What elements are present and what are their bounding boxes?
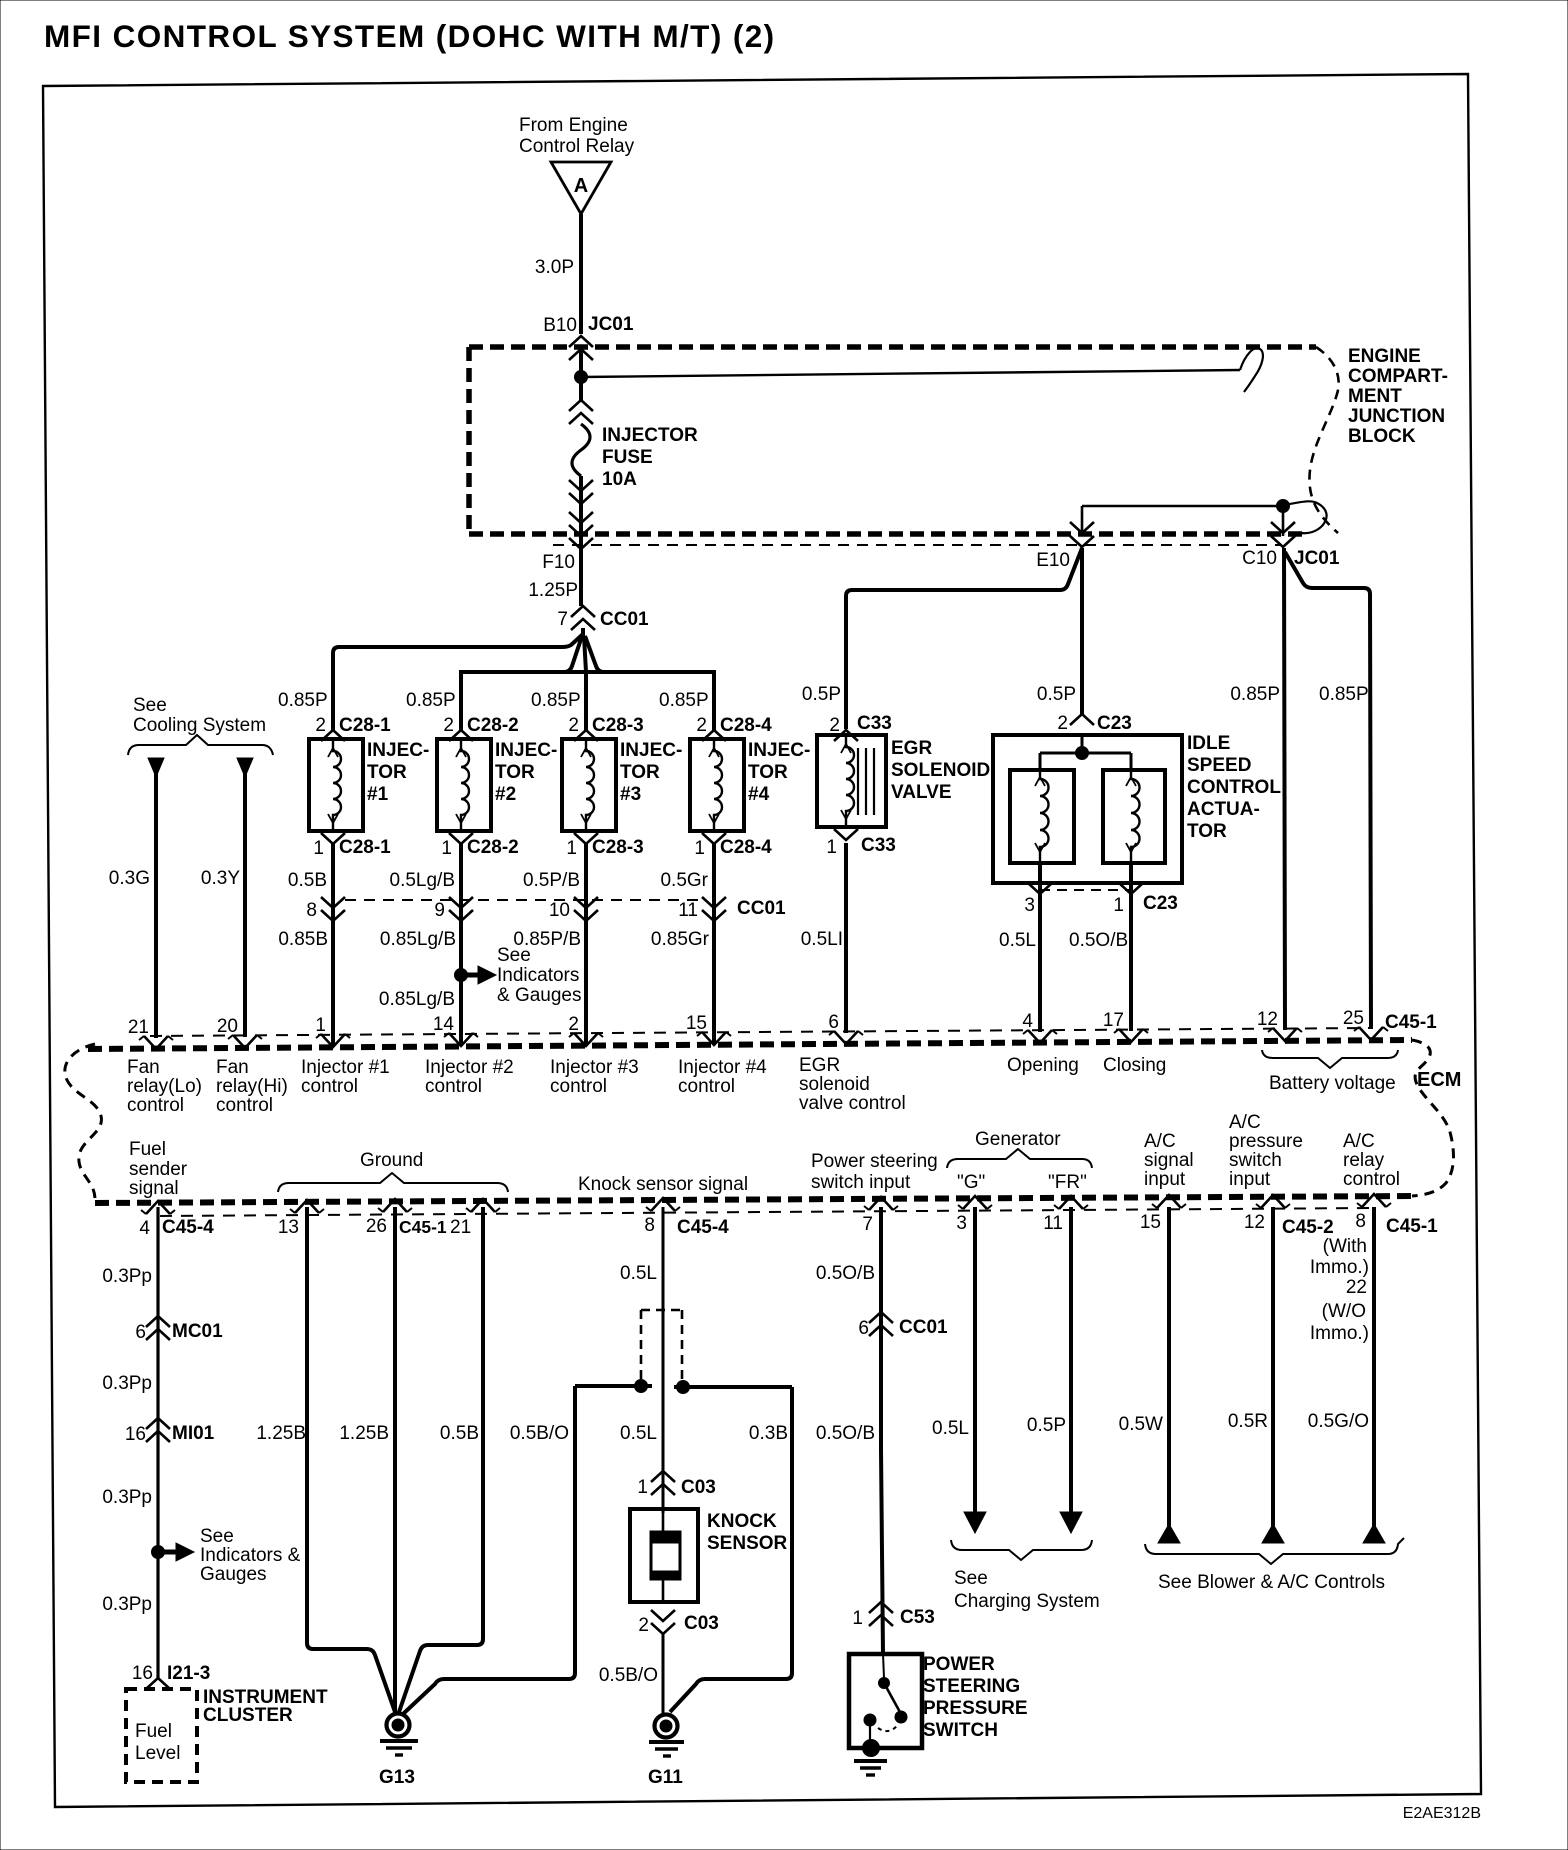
svg-text:0.85P: 0.85P bbox=[1319, 684, 1369, 705]
svg-text:0.5B/O: 0.5B/O bbox=[599, 1665, 658, 1686]
injector #1 coil box bbox=[309, 739, 363, 831]
svg-text:0.5L: 0.5L bbox=[932, 1418, 969, 1439]
wire E10 to ISCA bbox=[1080, 548, 1084, 714]
connector CC01 pin 8 bbox=[306, 897, 345, 922]
svg-text:0.5LI: 0.5LI bbox=[801, 929, 843, 950]
ECM top pin 2 bbox=[568, 1014, 603, 1046]
wire injector 1 to ECM bbox=[331, 922, 335, 1047]
ECM label AC pressure switch input bbox=[1229, 1112, 1303, 1190]
svg-text:2: 2 bbox=[696, 715, 707, 736]
injector #2 coil box bbox=[437, 739, 491, 831]
svg-text:CC01: CC01 bbox=[737, 898, 786, 919]
wire label 0.5W bbox=[1119, 1414, 1163, 1435]
svg-text:0.85P: 0.85P bbox=[278, 690, 328, 711]
svg-text:PRESSURE: PRESSURE bbox=[923, 1698, 1028, 1719]
svg-text:Control Relay: Control Relay bbox=[519, 136, 635, 157]
svg-text:relay(Hi): relay(Hi) bbox=[216, 1076, 288, 1097]
ECM label AC signal input bbox=[1144, 1131, 1194, 1190]
wire label 0.85P injector 1 bbox=[278, 690, 328, 711]
label INJECTOR #2 bbox=[495, 740, 557, 805]
svg-text:0.85Lg/B: 0.85Lg/B bbox=[379, 989, 455, 1010]
svg-text:1: 1 bbox=[826, 837, 837, 858]
svg-text:4: 4 bbox=[1022, 1011, 1033, 1032]
svg-text:1.25B: 1.25B bbox=[256, 1423, 306, 1444]
svg-text:A/C: A/C bbox=[1343, 1131, 1375, 1152]
ECM label Power steering switch input bbox=[811, 1151, 938, 1193]
ECM top pin 6 bbox=[828, 1012, 863, 1044]
svg-text:C28-4: C28-4 bbox=[720, 715, 772, 736]
svg-text:TOR: TOR bbox=[620, 762, 660, 783]
svg-text:0.85B: 0.85B bbox=[278, 929, 328, 950]
svg-text:1: 1 bbox=[313, 838, 324, 859]
label INJECTOR #3 bbox=[620, 740, 682, 805]
fuel sender tap to indicators bbox=[152, 1526, 301, 1585]
connector C53 pin 1 bbox=[852, 1602, 934, 1629]
svg-text:CC01: CC01 bbox=[600, 609, 649, 630]
svg-text:MI01: MI01 bbox=[172, 1423, 215, 1444]
svg-text:INJEC-: INJEC- bbox=[620, 740, 682, 761]
svg-text:0.3Y: 0.3Y bbox=[201, 868, 240, 889]
svg-text:C23: C23 bbox=[1143, 893, 1178, 914]
svg-text:Injector #1: Injector #1 bbox=[301, 1057, 390, 1078]
svg-text:control: control bbox=[425, 1076, 482, 1097]
svg-text:(With: (With bbox=[1323, 1236, 1367, 1257]
svg-text:1: 1 bbox=[852, 1608, 863, 1629]
svg-text:0.3G: 0.3G bbox=[109, 868, 150, 889]
ISCA right coil box bbox=[1103, 770, 1165, 863]
svg-text:INJECTOR: INJECTOR bbox=[602, 425, 698, 446]
svg-text:B10: B10 bbox=[543, 315, 577, 336]
label INJECTOR #1 bbox=[367, 740, 429, 805]
svg-text:1.25B: 1.25B bbox=[339, 1423, 389, 1444]
fan relay lo wire bbox=[148, 758, 164, 1038]
svg-text:8: 8 bbox=[1355, 1211, 1366, 1232]
label Ground bbox=[360, 1150, 423, 1171]
ECM bottom pin 8 bbox=[644, 1198, 680, 1236]
svg-text:2: 2 bbox=[1057, 713, 1068, 734]
svg-text:CONTROL: CONTROL bbox=[1187, 777, 1281, 798]
svg-text:2: 2 bbox=[568, 715, 579, 736]
ECM label Injector 3 control bbox=[550, 1057, 639, 1097]
svg-text:0.5G/O: 0.5G/O bbox=[1308, 1411, 1369, 1432]
label Battery voltage bbox=[1269, 1073, 1396, 1094]
wire label 0.85P battery2 bbox=[1319, 684, 1369, 705]
wire label 0.3Pp 1 bbox=[102, 1266, 152, 1287]
ISCA exit wires bbox=[1040, 863, 1131, 897]
injector #4 coil box bbox=[690, 739, 744, 831]
ECM bottom pin 13 bbox=[278, 1200, 324, 1238]
svg-text:SPEED: SPEED bbox=[1187, 755, 1251, 776]
ECM bottom pin 21 bbox=[466, 1199, 500, 1212]
svg-text:1: 1 bbox=[566, 838, 577, 859]
cooling system brace bbox=[128, 735, 273, 755]
svg-text:IDLE: IDLE bbox=[1187, 733, 1230, 754]
svg-text:2: 2 bbox=[829, 715, 840, 736]
svg-text:C28-1: C28-1 bbox=[339, 715, 391, 736]
wire label 0.85P injector 2 bbox=[406, 690, 456, 711]
svg-text:Immo.): Immo.) bbox=[1310, 1323, 1369, 1344]
diagram code E2AE312B bbox=[1403, 1805, 1481, 1822]
svg-text:Injector #4: Injector #4 bbox=[678, 1057, 767, 1078]
svg-text:2: 2 bbox=[443, 715, 454, 736]
ECM label Knock sensor signal bbox=[578, 1174, 748, 1195]
svg-text:0.5L: 0.5L bbox=[620, 1423, 657, 1444]
wire injector 2 to ECM bbox=[459, 922, 463, 1046]
ECM label Injector 4 control bbox=[678, 1057, 767, 1097]
connector MI01 pin 16 bbox=[125, 1418, 215, 1445]
connector C23 pin 2 bbox=[1057, 713, 1131, 734]
svg-text:0.85P: 0.85P bbox=[659, 690, 709, 711]
ECM top pin 15 bbox=[686, 1013, 731, 1045]
svg-text:21: 21 bbox=[128, 1017, 149, 1038]
wire ISCA opening to ECM bbox=[1038, 897, 1042, 1032]
svg-text:C28-1: C28-1 bbox=[339, 837, 391, 858]
label See Cooling System bbox=[133, 695, 266, 736]
svg-text:control: control bbox=[127, 1095, 184, 1116]
svg-text:C28-2: C28-2 bbox=[467, 715, 519, 736]
svg-text:solenoid: solenoid bbox=[799, 1074, 870, 1095]
label INJECTOR FUSE 10A bbox=[602, 425, 698, 490]
svg-text:INJEC-: INJEC- bbox=[495, 740, 557, 761]
ECM bottom dashed edge bbox=[95, 1196, 1412, 1203]
svg-text:Immo.): Immo.) bbox=[1310, 1257, 1369, 1278]
power steering pressure switch box bbox=[849, 1654, 922, 1757]
shield drain wire 0.3B to G11 bbox=[670, 1387, 792, 1712]
svg-text:0.85P: 0.85P bbox=[406, 690, 456, 711]
svg-text:TOR: TOR bbox=[1187, 821, 1227, 842]
svg-text:0.5P: 0.5P bbox=[1037, 684, 1076, 705]
wire label 1.25B b bbox=[339, 1423, 389, 1444]
svg-text:12: 12 bbox=[1257, 1009, 1278, 1030]
svg-text:control: control bbox=[550, 1076, 607, 1097]
connector E10 bbox=[1036, 506, 1094, 571]
wire label 0.5L ISCA bbox=[999, 930, 1036, 951]
junction block left dashed edge bbox=[466, 347, 472, 534]
ECM top pin 14 bbox=[433, 1014, 478, 1046]
svg-text:input: input bbox=[1144, 1169, 1186, 1190]
svg-text:JUNCTION: JUNCTION bbox=[1348, 406, 1445, 427]
ECM top pin 1 bbox=[315, 1015, 350, 1047]
svg-text:sender: sender bbox=[129, 1159, 188, 1180]
wire label 0.5Gr bbox=[660, 870, 708, 891]
charging system brace bbox=[951, 1540, 1092, 1560]
wire label 0.5P gen bbox=[1027, 1415, 1066, 1436]
wire label 0.5B bbox=[288, 870, 327, 891]
svg-text:C28-4: C28-4 bbox=[720, 837, 772, 858]
svg-text:Fuel: Fuel bbox=[135, 1721, 172, 1742]
svg-text:A/C: A/C bbox=[1144, 1131, 1176, 1152]
svg-text:1.25P: 1.25P bbox=[528, 580, 578, 601]
wire label 1.25P bbox=[528, 580, 578, 601]
svg-text:JC01: JC01 bbox=[588, 314, 634, 335]
wire F10 to CC01 bbox=[579, 556, 583, 606]
svg-text:#3: #3 bbox=[620, 784, 641, 805]
connector C33 pin 2 bbox=[829, 713, 891, 741]
wire label 0.85B bbox=[278, 929, 328, 950]
wire label 0.85P battery1 bbox=[1230, 684, 1280, 705]
svg-text:0.3Pp: 0.3Pp bbox=[102, 1487, 152, 1508]
wire label 0.5LI bbox=[801, 929, 843, 950]
connector B10 JC01 bbox=[543, 314, 634, 360]
ECM top pin 21 bbox=[128, 1017, 173, 1049]
knock ground wire bbox=[662, 1634, 665, 1713]
label ECM bbox=[1417, 1069, 1461, 1091]
connector C28-2 pin 2 top bbox=[443, 715, 518, 741]
connector C28-2 pin 1 bottom bbox=[441, 833, 518, 859]
svg-text:Fan: Fan bbox=[216, 1057, 249, 1078]
knock wire upper bbox=[662, 1207, 665, 1513]
instrument cluster fuel level box bbox=[126, 1689, 197, 1782]
fanout crossbar 2-4 bbox=[461, 670, 714, 674]
svg-text:Gauges: Gauges bbox=[200, 1564, 267, 1585]
blower brace bbox=[1145, 1538, 1404, 1564]
connector MC01 pin 6 bbox=[135, 1316, 223, 1343]
generator brace bbox=[947, 1149, 1092, 1168]
connector C28-4 pin 1 bottom bbox=[694, 833, 772, 859]
ECM label FR bbox=[1048, 1172, 1087, 1193]
fuel sender wire upper bbox=[156, 1207, 159, 1678]
wire injector 3 to CC01 bbox=[584, 844, 588, 897]
ECM label G bbox=[957, 1172, 985, 1193]
svg-text:2: 2 bbox=[638, 1615, 649, 1636]
generator FR wire bbox=[1060, 1207, 1082, 1533]
wire label 0.3Pp 2 bbox=[102, 1373, 152, 1394]
connector C10 JC01 bbox=[1242, 512, 1340, 569]
wire label 0.5O/B ISCA bbox=[1069, 930, 1128, 951]
switch ground hatching bbox=[854, 1761, 887, 1775]
wire C10 leg battery 2 bbox=[1285, 552, 1371, 1029]
ECM label Closing bbox=[1103, 1055, 1166, 1076]
svg-text:16: 16 bbox=[125, 1424, 146, 1445]
svg-text:Ground: Ground bbox=[360, 1150, 423, 1171]
svg-text:& Gauges: & Gauges bbox=[497, 985, 582, 1006]
connector C28-1 pin 2 top bbox=[315, 715, 391, 741]
svg-text:0.5R: 0.5R bbox=[1228, 1411, 1268, 1432]
svg-text:input: input bbox=[1229, 1169, 1271, 1190]
bus wire E10 C10 bbox=[1082, 505, 1283, 507]
svg-text:INJEC-: INJEC- bbox=[367, 740, 429, 761]
svg-text:0.5Lg/B: 0.5Lg/B bbox=[390, 870, 456, 891]
svg-text:CLUSTER: CLUSTER bbox=[203, 1705, 293, 1726]
svg-text:C33: C33 bbox=[857, 713, 892, 734]
svg-text:15: 15 bbox=[1140, 1212, 1161, 1233]
wire injector 2 to CC01 bbox=[459, 844, 463, 897]
wire injector 1 to CC01 bbox=[331, 844, 335, 897]
svg-text:1: 1 bbox=[1113, 895, 1124, 916]
svg-text:3: 3 bbox=[1024, 895, 1035, 916]
svg-text:Cooling System: Cooling System bbox=[133, 715, 266, 736]
wire label 0.85Lg/B bbox=[380, 929, 456, 950]
generator G wire bbox=[964, 1207, 986, 1533]
junction block bottom dashed edge bbox=[469, 531, 1302, 537]
power steering wire bbox=[881, 1207, 883, 1654]
bus wire to JC01 loop bbox=[581, 348, 1263, 392]
connector CC01 pin 6 bbox=[858, 1312, 948, 1339]
svg-text:C03: C03 bbox=[684, 1613, 719, 1634]
svg-text:14: 14 bbox=[433, 1014, 455, 1035]
ECM bottom pin 8 bbox=[1355, 1194, 1391, 1232]
svg-text:Generator: Generator bbox=[975, 1129, 1061, 1150]
svg-text:0.85Gr: 0.85Gr bbox=[651, 929, 710, 950]
svg-text:C45-1: C45-1 bbox=[1385, 1012, 1437, 1033]
svg-text:#1: #1 bbox=[367, 784, 389, 805]
wire ISCA closing to ECM bbox=[1129, 897, 1133, 1031]
svg-text:13: 13 bbox=[278, 1217, 299, 1238]
svg-text:STEERING: STEERING bbox=[923, 1676, 1020, 1697]
wire C10 leg battery 1 bbox=[1284, 548, 1285, 1030]
fanout wire to injector 1 bbox=[333, 634, 583, 730]
svg-text:Knock sensor signal: Knock sensor signal bbox=[578, 1174, 748, 1195]
svg-text:SWITCH: SWITCH bbox=[923, 1720, 998, 1741]
fanout wire to injector 2 bbox=[461, 636, 582, 730]
svg-text:0.5Gr: 0.5Gr bbox=[660, 870, 708, 891]
svg-text:10: 10 bbox=[549, 900, 570, 921]
connector C28-4 pin 2 top bbox=[696, 715, 772, 741]
svg-text:7: 7 bbox=[557, 609, 568, 630]
svg-text:2: 2 bbox=[315, 715, 326, 736]
svg-text:C45-2: C45-2 bbox=[1282, 1217, 1334, 1238]
svg-text:G11: G11 bbox=[648, 1767, 683, 1788]
ECM label Injector 1 control bbox=[301, 1057, 390, 1097]
ground wire 13 bbox=[307, 1207, 395, 1712]
svg-text:switch: switch bbox=[1229, 1150, 1282, 1171]
svg-text:8: 8 bbox=[306, 900, 317, 921]
connector C28-3 pin 1 bottom bbox=[566, 833, 643, 859]
svg-text:1: 1 bbox=[441, 838, 452, 859]
svg-text:7: 7 bbox=[862, 1214, 873, 1235]
svg-text:relay(Lo): relay(Lo) bbox=[127, 1076, 202, 1097]
svg-text:10A: 10A bbox=[602, 469, 637, 490]
svg-text:3: 3 bbox=[956, 1213, 967, 1234]
wire label 0.5P ISCA bbox=[1037, 684, 1076, 705]
svg-text:F10: F10 bbox=[542, 552, 575, 573]
svg-text:(W/O: (W/O bbox=[1322, 1301, 1366, 1322]
svg-text:signal: signal bbox=[1144, 1150, 1194, 1171]
power source triangle A bbox=[551, 162, 611, 214]
svg-text:20: 20 bbox=[217, 1016, 238, 1037]
svg-text:TOR: TOR bbox=[367, 762, 407, 783]
wire label 0.5L gen bbox=[932, 1418, 969, 1439]
svg-text:A: A bbox=[574, 175, 588, 197]
svg-text:ACTUA-: ACTUA- bbox=[1187, 799, 1260, 820]
wire E10 to EGR branch bbox=[846, 548, 1082, 729]
wire label 0.85Lg/B lower bbox=[379, 989, 455, 1010]
svg-text:Power steering: Power steering bbox=[811, 1151, 938, 1172]
svg-text:0.5B/O: 0.5B/O bbox=[510, 1423, 569, 1444]
wire label 0.3Y bbox=[201, 868, 240, 889]
svg-text:pressure: pressure bbox=[1229, 1131, 1303, 1152]
svg-text:12: 12 bbox=[1244, 1212, 1265, 1233]
svg-text:Fuel: Fuel bbox=[129, 1139, 166, 1160]
svg-text:See: See bbox=[497, 945, 531, 966]
ECM bottom connector row dashed line bbox=[160, 1208, 1374, 1216]
shield drain wire 0.5B/O to G13 bbox=[403, 1386, 575, 1714]
svg-text:17: 17 bbox=[1103, 1010, 1124, 1031]
junction node under B10 bbox=[575, 371, 588, 384]
label See Blower and AC Controls bbox=[1158, 1572, 1385, 1593]
wire label 0.5P EGR bbox=[802, 684, 841, 705]
svg-text:MC01: MC01 bbox=[172, 1321, 223, 1342]
ECM top pin 17 bbox=[1103, 1010, 1148, 1042]
ECM top pin 20 bbox=[217, 1016, 262, 1048]
svg-text:SENSOR: SENSOR bbox=[707, 1533, 788, 1554]
wire label 0.85Gr bbox=[651, 929, 710, 950]
connector C03 pin 1 bbox=[637, 1471, 715, 1498]
svg-text:6: 6 bbox=[135, 1322, 146, 1343]
svg-text:16: 16 bbox=[132, 1663, 153, 1684]
connector CC01 pin 11 bbox=[678, 897, 726, 922]
svg-text:EGR: EGR bbox=[891, 738, 932, 759]
svg-text:Fan: Fan bbox=[127, 1057, 160, 1078]
ECM bottom pin 15 bbox=[1140, 1195, 1186, 1233]
ECM left dashed edge bbox=[65, 1044, 102, 1198]
svg-text:FUSE: FUSE bbox=[602, 447, 653, 468]
svg-text:0.5B: 0.5B bbox=[440, 1423, 479, 1444]
see indicators gauges tap bbox=[455, 945, 582, 1006]
ECM label Fan relay Lo control bbox=[127, 1057, 202, 1116]
junction block right dashed edge bbox=[1309, 347, 1338, 533]
wire EGR to ECM bbox=[844, 843, 848, 1033]
ground brace bbox=[278, 1173, 508, 1192]
label Generator bbox=[975, 1129, 1061, 1150]
svg-text:control: control bbox=[1343, 1169, 1400, 1190]
svg-text:11: 11 bbox=[1043, 1213, 1063, 1234]
svg-text:0.5L: 0.5L bbox=[999, 930, 1036, 951]
fan relay hi wire bbox=[237, 758, 253, 1037]
svg-text:COMPART-: COMPART- bbox=[1348, 366, 1448, 387]
svg-text:TOR: TOR bbox=[495, 762, 535, 783]
wire label 0.5Lg/B bbox=[390, 870, 456, 891]
svg-text:C03: C03 bbox=[681, 1477, 716, 1498]
svg-text:0.85P: 0.85P bbox=[1230, 684, 1280, 705]
ground wire 26 bbox=[393, 1207, 397, 1712]
svg-text:25: 25 bbox=[1343, 1008, 1364, 1029]
fanout wire to injector 3 bbox=[584, 636, 586, 730]
svg-text:1: 1 bbox=[315, 1015, 326, 1036]
svg-text:0.5L: 0.5L bbox=[620, 1263, 657, 1284]
label INJECTOR #4 bbox=[748, 740, 810, 805]
connector C23 pins 3 1 bbox=[1024, 883, 1177, 916]
svg-text:TOR: TOR bbox=[748, 762, 788, 783]
ECM top pin 12 bbox=[1257, 1009, 1302, 1041]
label IDLE SPEED CONTROL ACTUATOR bbox=[1187, 733, 1281, 842]
svg-text:2: 2 bbox=[568, 1014, 579, 1035]
label KNOCK SENSOR bbox=[707, 1511, 788, 1554]
connector F10 bbox=[542, 512, 593, 573]
svg-text:C45-1: C45-1 bbox=[399, 1217, 447, 1237]
svg-text:MENT: MENT bbox=[1348, 386, 1402, 407]
ECM label EGR solenoid valve control bbox=[799, 1055, 906, 1114]
svg-text:0.85P: 0.85P bbox=[531, 690, 581, 711]
knock shield dashed box bbox=[641, 1310, 682, 1382]
connector CC01 pin 7 bbox=[557, 606, 649, 636]
connector C28-1 pin 1 bottom bbox=[313, 833, 391, 859]
ac signal wire bbox=[1158, 1207, 1180, 1543]
svg-text:JC01: JC01 bbox=[1294, 548, 1340, 569]
svg-text:0.5P: 0.5P bbox=[1027, 1415, 1066, 1436]
ground symbol G13 bbox=[379, 1714, 418, 1789]
svg-text:22: 22 bbox=[1346, 1277, 1367, 1298]
wire label 1.25B a bbox=[256, 1423, 306, 1444]
svg-text:ECM: ECM bbox=[1417, 1069, 1461, 1091]
ECM bottom pin 12 bbox=[1244, 1195, 1290, 1233]
svg-text:4: 4 bbox=[139, 1218, 150, 1239]
svg-text:C28-3: C28-3 bbox=[592, 715, 644, 736]
ECM top dashed edge bbox=[88, 1040, 1412, 1049]
svg-text:"FR": "FR" bbox=[1048, 1172, 1087, 1193]
wire triangle to B10 bbox=[579, 214, 583, 334]
svg-text:11: 11 bbox=[678, 900, 698, 921]
